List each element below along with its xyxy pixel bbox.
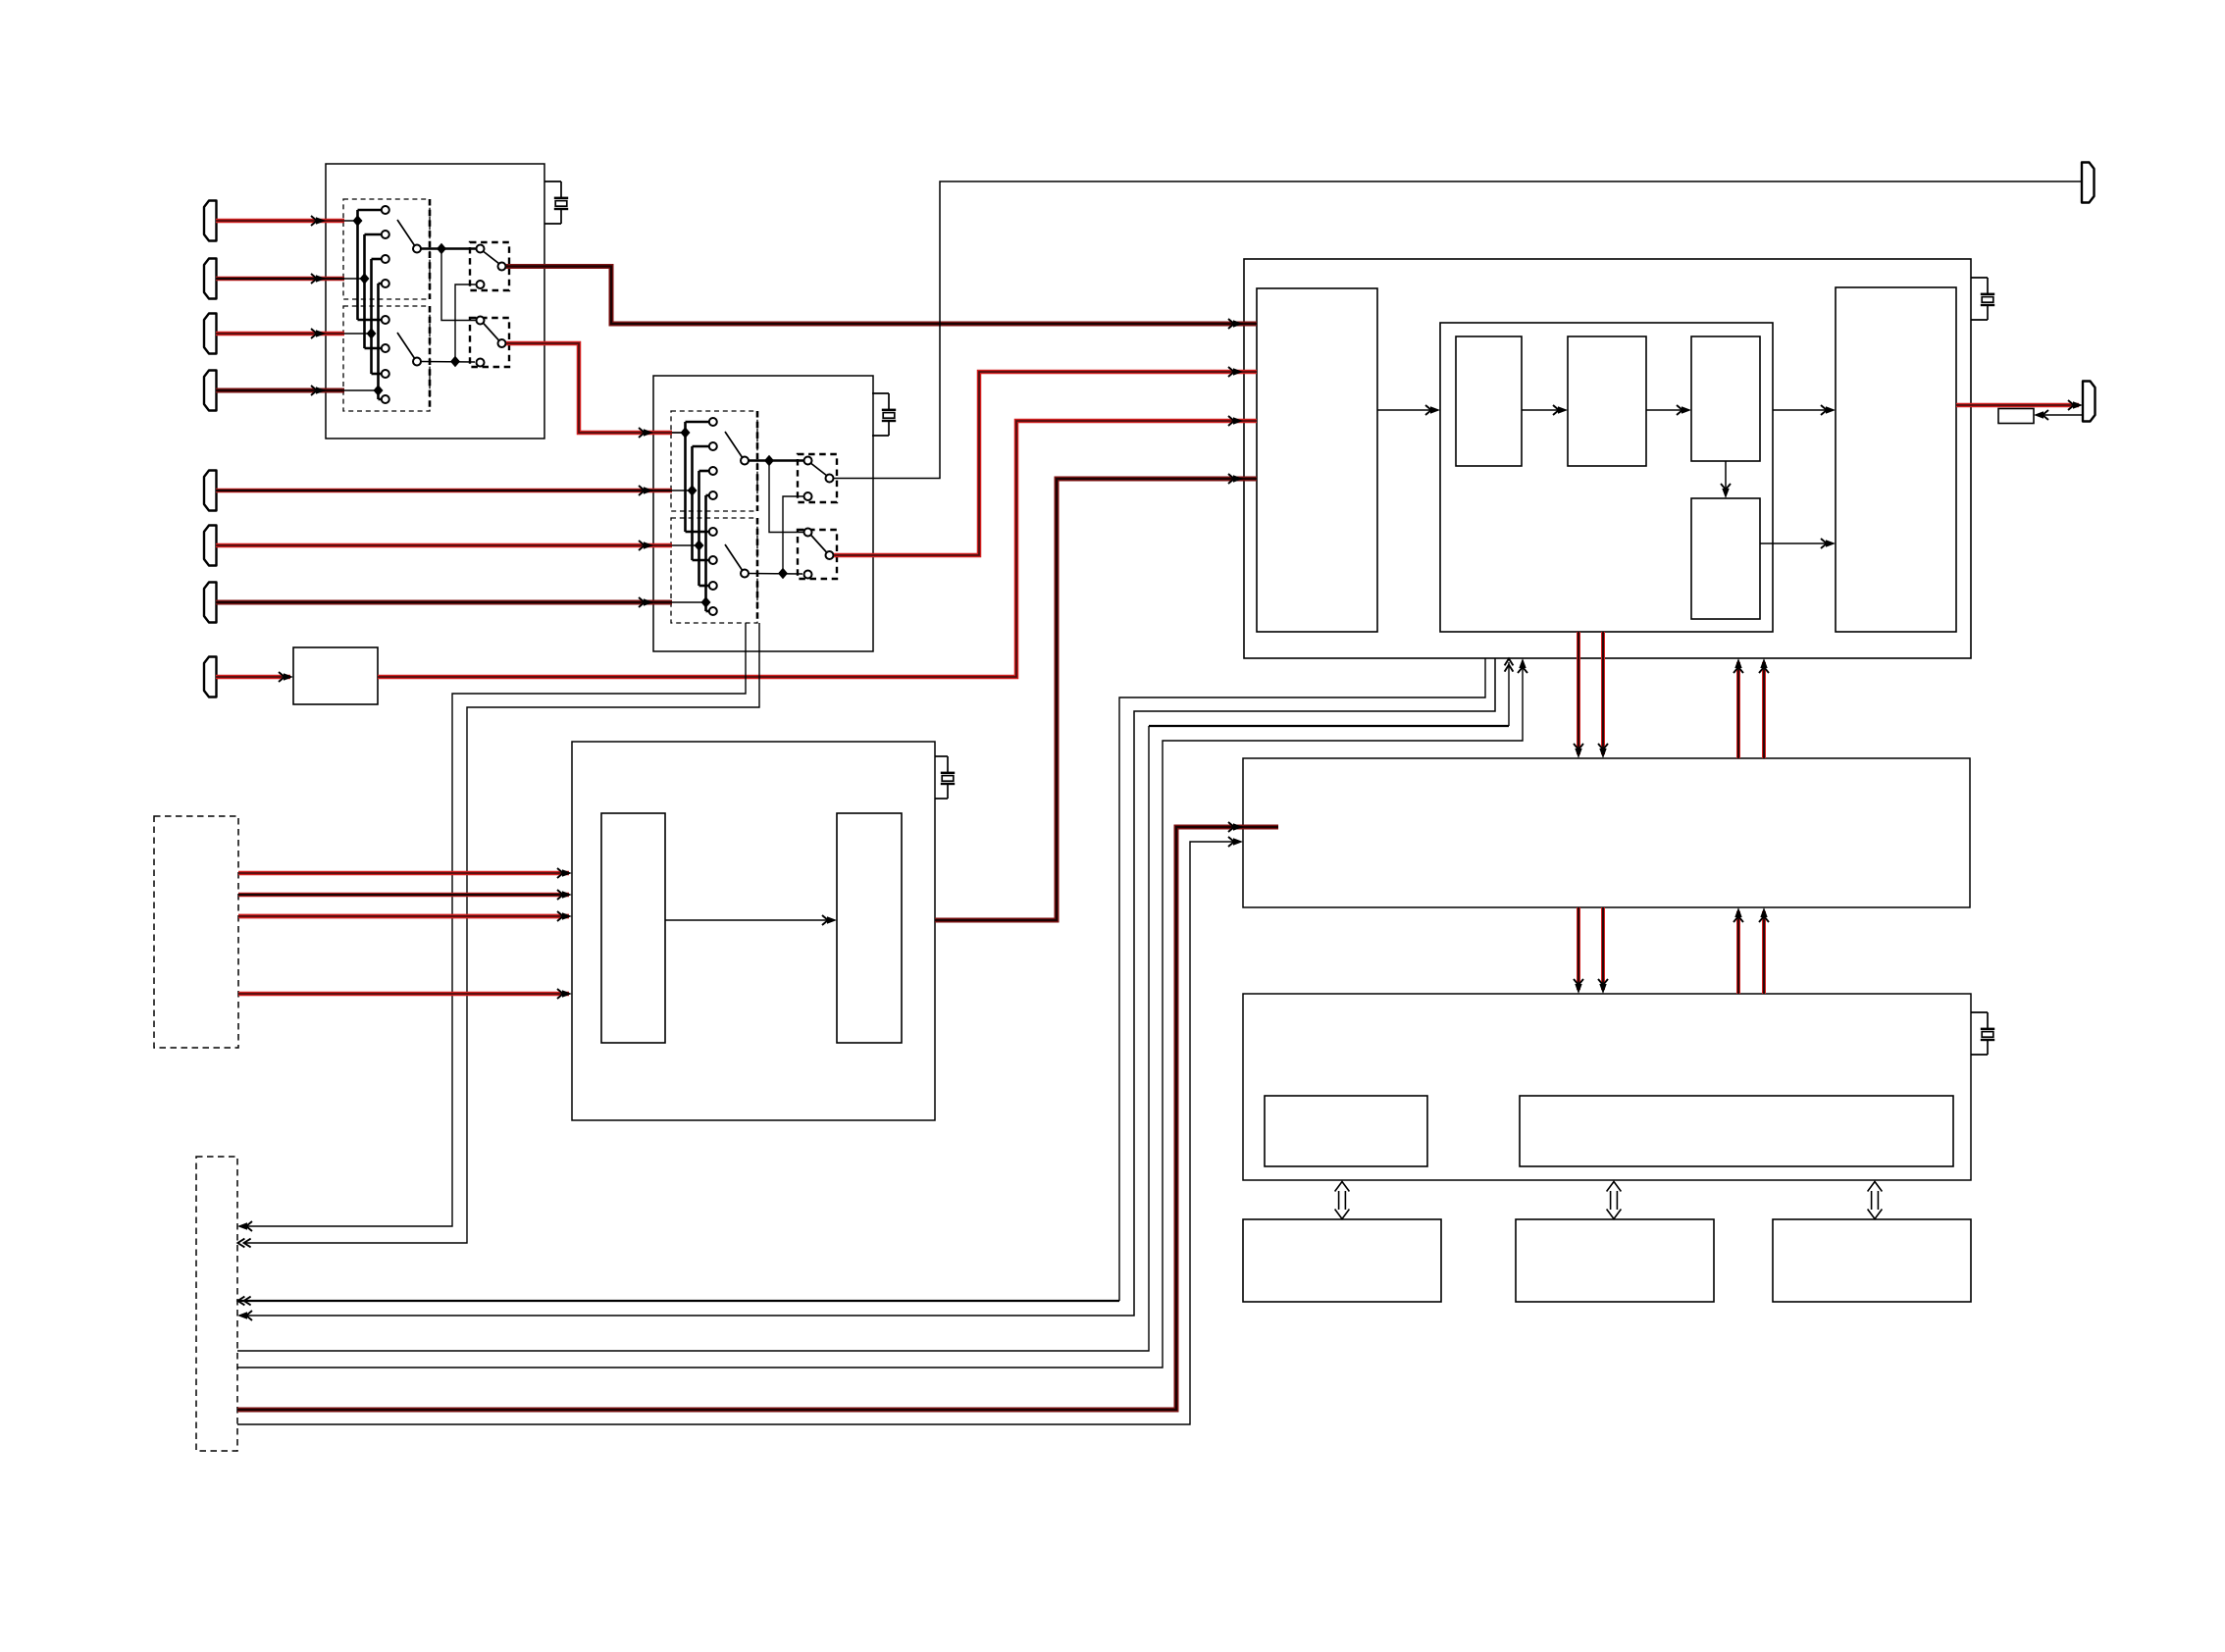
- arm A output to SPDT switches U2: [749, 459, 803, 462]
- crystal X3: [1971, 278, 1994, 320]
- memory IC3: [1773, 1219, 1971, 1302]
- connector J5: [204, 471, 217, 511]
- selector arm B U1: [397, 333, 415, 358]
- U5 input block: [601, 813, 665, 1043]
- bus U3 to U4 down pair: [1577, 632, 1580, 754]
- selector bank A dashed outline inside U1: [343, 199, 430, 299]
- wire U2 pinB to CN-B: [244, 623, 759, 1243]
- wire U3 stage3 to stage4: [1725, 461, 1727, 494]
- bus U4 to U6 down pair: [1577, 907, 1580, 990]
- wire J4 to U1 in4: [216, 388, 344, 393]
- wire U3 core to output block: [1773, 409, 1832, 411]
- input selector box U1: [326, 164, 544, 439]
- arm B output to SPDT switches U1: [421, 361, 475, 364]
- memory bus arrow 2: [1607, 1182, 1622, 1219]
- U6 sub-block A: [1265, 1096, 1427, 1166]
- crystal X1: [544, 181, 568, 224]
- arm B output to SPDT switches U2: [749, 573, 802, 576]
- connector J10 output right: [2083, 382, 2096, 422]
- memory IC2: [1516, 1219, 1714, 1302]
- wire U1 out1 to U3 in1: [506, 267, 1257, 325]
- wire J7 to U2 in4: [216, 600, 672, 605]
- connector J7: [204, 583, 217, 623]
- bus U6 to U4 up pair: [1736, 911, 1740, 994]
- selector bank B dashed outline inside U1: [343, 306, 430, 411]
- wire U5 internal: [665, 919, 833, 921]
- wire J1 to U1 in1: [216, 219, 344, 224]
- wire U2 pinA to CN-B: [239, 623, 746, 1226]
- wire U3 stage4 to output block: [1760, 542, 1832, 544]
- memory bus arrow 3: [1868, 1182, 1883, 1219]
- U6 sub-block B: [1520, 1096, 1953, 1166]
- wire U3 status2 to CN-B: [239, 658, 1495, 1316]
- selector arm A U2: [725, 432, 743, 457]
- connector J6: [204, 526, 217, 566]
- U3 input interface block: [1257, 288, 1377, 632]
- wire buffer A1 out to U3 in3: [378, 421, 1257, 677]
- U5 output block: [837, 813, 902, 1043]
- wire CN-A w2 to U5: [238, 893, 569, 898]
- wire J5 to U2 in2: [216, 489, 672, 493]
- SPDT switch 2 U1: [470, 318, 509, 367]
- U3 processing core container: [1440, 323, 1773, 632]
- connector J2: [204, 259, 217, 299]
- wire U3 stage2 to stage3: [1646, 409, 1687, 411]
- wire CN-B to U4 in2: [237, 842, 1240, 1424]
- wire U3 stage1 to stage2: [1522, 409, 1564, 411]
- wire CN-B red to U4 in1: [237, 827, 1278, 1410]
- selector arm B U2: [725, 544, 743, 570]
- SPDT switch 2 U2: [798, 530, 837, 579]
- wire CN-A w3 to U5: [238, 914, 569, 919]
- input selector box U2: [653, 376, 873, 651]
- input bus wires and junctions U2: [653, 432, 686, 434]
- wire J10 return to ident block: [2038, 414, 2083, 416]
- memory IC1: [1243, 1219, 1441, 1302]
- connector J9 top right: [2082, 163, 2095, 203]
- U3 core stage 3: [1691, 336, 1760, 461]
- memory bus arrow 1: [1335, 1182, 1350, 1219]
- DSP box U5: [572, 742, 935, 1120]
- crystal X5: [1971, 1012, 1994, 1055]
- wire U2 out1 to J9: [834, 181, 2082, 479]
- U3 core stage 4: [1691, 498, 1760, 619]
- U3 core stage 1: [1456, 336, 1522, 466]
- wire J2 to U1 in2: [216, 277, 344, 282]
- memory controller box U6: [1243, 994, 1971, 1180]
- wire CN-A w4 to U5: [238, 992, 569, 997]
- SPDT switch 1 U2: [798, 454, 837, 502]
- selector bank B dashed outline inside U2: [671, 518, 757, 623]
- selector contacts U2: [709, 418, 717, 426]
- U3 output interface block: [1836, 287, 1956, 632]
- wire CN-B ctrl2 to U3: [237, 662, 1523, 1368]
- wire J6 to U2 in3: [216, 543, 672, 548]
- wire U2 out2 to U3 in2: [834, 372, 1257, 555]
- input bus wires and junctions U1: [326, 220, 358, 222]
- wire U1 out2 to U2 in1: [506, 343, 672, 433]
- connector CN-B dashed: [196, 1157, 237, 1451]
- SPDT switch 1 U1: [470, 242, 509, 290]
- wire J3 to U1 in3: [216, 332, 344, 336]
- U3 core stage 2: [1568, 336, 1646, 466]
- arm A output to SPDT switches U1: [421, 247, 476, 250]
- connector J4: [204, 371, 217, 411]
- wire U5 out to U3 in4: [935, 479, 1257, 920]
- main processor box U3: [1244, 259, 1971, 658]
- buffer box A1: [293, 647, 378, 704]
- system controller box U4: [1243, 758, 1970, 907]
- selector arm A U1: [397, 220, 415, 245]
- crystal X4: [935, 756, 955, 799]
- wire CN-A w1 to U5: [238, 871, 569, 876]
- connector J1: [204, 201, 217, 241]
- bus U4 to U3 up pair: [1736, 662, 1740, 758]
- selector bank A dashed outline inside U2: [671, 411, 757, 511]
- connector CN-A dashed: [154, 816, 238, 1048]
- connector J3: [204, 314, 217, 354]
- ident block: [1998, 409, 2034, 424]
- wire U3 internal in to core: [1377, 409, 1436, 411]
- connector J8: [204, 657, 217, 697]
- wire CN-B ctrl1 to U3: [237, 726, 1149, 1351]
- wire U3 out to J10: [1956, 403, 2079, 408]
- wire J8 to buffer A1: [216, 675, 290, 680]
- wire U3 status1 to CN-B: [1119, 658, 1485, 1301]
- crystal X2: [872, 393, 896, 436]
- selector contacts U1: [382, 206, 389, 214]
